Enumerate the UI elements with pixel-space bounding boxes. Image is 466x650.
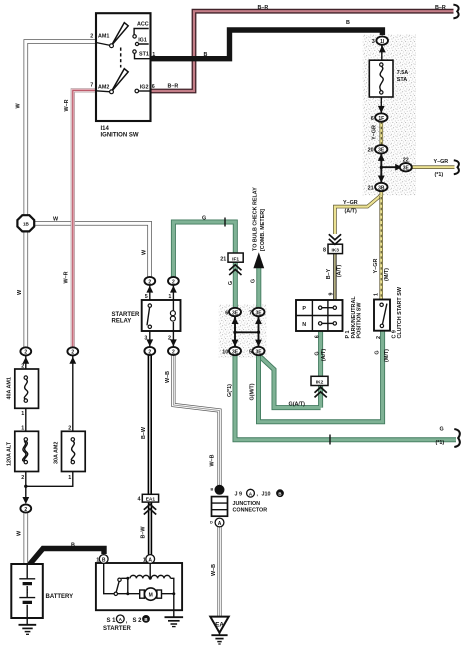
svg-text:120A ALT: 120A ALT — [7, 441, 13, 466]
svg-text:20: 20 — [368, 148, 374, 154]
fuse 7.5A STA box — [369, 60, 393, 97]
ignition lever AM1 — [111, 23, 128, 46]
wire B-R from ignition IG2 up and right to edge hook — [151, 11, 454, 91]
svg-text:EA1: EA1 — [146, 497, 156, 503]
svg-text:3B: 3B — [378, 185, 385, 191]
svg-text:1: 1 — [152, 52, 155, 58]
svg-text:6: 6 — [315, 335, 321, 338]
edge hook G bottom right — [454, 429, 460, 447]
svg-text:W–R: W–R — [64, 271, 70, 283]
wire W-R from ignition AM2 left and down to fuse AM2 — [73, 90, 96, 347]
starter coil 2 — [151, 575, 170, 578]
starter coil 1 — [130, 575, 149, 578]
svg-text:JUNCTION: JUNCTION — [233, 501, 261, 507]
svg-text:B: B — [144, 617, 147, 622]
svg-text:3E: 3E — [403, 166, 410, 172]
relay connector oval 2 pin5 — [144, 277, 155, 285]
svg-text:8: 8 — [323, 248, 326, 254]
connector IF1 box — [228, 253, 243, 262]
svg-text:B: B — [204, 52, 208, 58]
connector EA1 box — [142, 494, 158, 502]
starter terminal B circle — [99, 555, 108, 564]
wire W-B junction connector to body ground EA — [217, 527, 221, 617]
svg-text:1: 1 — [168, 294, 171, 300]
connector 6 oval 3E — [229, 308, 241, 316]
svg-text:G: G — [251, 279, 257, 283]
svg-text:7: 7 — [249, 310, 252, 316]
svg-text:ST1: ST1 — [139, 51, 149, 57]
park/neutral contacts P row — [319, 306, 322, 309]
svg-text:G: G — [315, 351, 321, 355]
svg-text:2: 2 — [172, 279, 175, 285]
wire G connector IF1 to connector 6 3E — [233, 262, 238, 308]
svg-text:2: 2 — [21, 475, 24, 481]
svg-text:10: 10 — [222, 349, 228, 355]
park/neutral contacts N row — [319, 322, 322, 325]
svg-text:2: 2 — [24, 350, 27, 356]
ignition lever link dashed — [120, 48, 122, 68]
svg-text:30A AM2: 30A AM2 — [54, 442, 60, 464]
svg-text:7: 7 — [90, 82, 93, 88]
svg-text:P: P — [302, 306, 306, 312]
svg-text:1: 1 — [374, 293, 380, 296]
wire G park/neutral pin 6 to connector IK2 down left to connector 5 3E — [260, 331, 321, 408]
svg-text:6: 6 — [225, 310, 228, 316]
connector 10 oval 3E — [229, 347, 241, 355]
svg-text:STARTER: STARTER — [103, 626, 132, 632]
wire W octagon down to fuse AM1 — [23, 232, 28, 348]
fuse 30A AM2 box — [62, 431, 86, 471]
fuse 40A AM1 box — [15, 369, 39, 408]
svg-text:RELAY: RELAY — [112, 318, 132, 324]
starter junction dots — [126, 577, 129, 580]
svg-text:2: 2 — [168, 335, 171, 341]
connector 20 oval 3E — [375, 145, 387, 153]
svg-text:IGNITION SW: IGNITION SW — [101, 132, 139, 138]
svg-text:EA: EA — [215, 622, 224, 629]
svg-text:(A/T): (A/T) — [321, 349, 327, 361]
ignition contact IG1b — [135, 42, 138, 45]
arrow into connector 22 — [395, 164, 402, 171]
ignition ACC ladder line — [134, 29, 149, 59]
svg-text:ACC: ACC — [137, 21, 149, 27]
arrow into connector 20 — [378, 154, 385, 161]
svg-text:AM1: AM1 — [98, 33, 109, 39]
arrow to bulb check relay — [253, 252, 264, 268]
wire Y-GR connector 22 to right edge hook — [412, 165, 455, 169]
relay connector oval 2 pin3 — [144, 347, 155, 355]
connector IK3 box — [328, 244, 343, 253]
arrows into connectors 6,7 3E — [232, 317, 239, 324]
svg-text:6: 6 — [371, 116, 374, 122]
svg-text:3E: 3E — [232, 349, 239, 355]
svg-text:2: 2 — [376, 336, 382, 339]
svg-text:N: N — [302, 322, 306, 328]
svg-text:W–B: W–B — [211, 564, 217, 576]
svg-text:B–R: B–R — [258, 5, 269, 11]
connector 21 oval 3B — [375, 183, 387, 191]
svg-text:Y–GR: Y–GR — [343, 200, 358, 206]
fuse 120A ALT box — [15, 431, 39, 471]
svg-text:B: B — [218, 488, 222, 494]
svg-text:(*1): (*1) — [435, 172, 444, 178]
svg-text:Y–GR: Y–GR — [372, 125, 378, 140]
svg-text:IK3: IK3 — [331, 248, 339, 254]
wire Y-GR (M/T) down to clutch start switch — [379, 196, 383, 300]
svg-text:B: B — [278, 492, 281, 497]
svg-text:2: 2 — [148, 349, 151, 355]
wire B-Y connector IK3 to park/neutral switch pin 9 — [333, 254, 336, 300]
wire W octagon to starter relay column — [34, 223, 149, 277]
wire Y-GR (A/T) branch to connector IK3 — [335, 195, 381, 234]
starter box — [96, 563, 182, 610]
junction dot fuse output — [24, 485, 27, 488]
fuse 7.5A STA element — [380, 66, 383, 91]
arrow into connector 6 — [378, 106, 385, 113]
svg-text:3: 3 — [372, 39, 375, 45]
svg-text:TO BULB CHECK RELAY: TO BULB CHECK RELAY — [252, 187, 258, 251]
starter relay box — [142, 300, 181, 331]
wire W from ignition AM1 left and down to octagon 1B — [26, 42, 96, 216]
connector oval 2 above fuse AM1 — [20, 347, 31, 355]
battery box — [11, 564, 43, 618]
svg-text:A: A — [148, 557, 152, 563]
svg-text:G: G — [228, 281, 234, 285]
junction block stipple middle — [219, 305, 267, 359]
ignition lever AM2 — [111, 69, 128, 92]
chevrons IK3 — [329, 234, 341, 244]
ignition contact IG2 — [135, 89, 139, 93]
wire black fuse to connector 6 1F — [380, 97, 382, 114]
svg-text:3E: 3E — [232, 310, 239, 316]
svg-text:3E: 3E — [255, 310, 262, 316]
wire B thick battery cable to starter terminal B — [30, 549, 105, 565]
wire black fuse AM1 chain down — [25, 356, 27, 498]
wire G connector 10 3E down and right to edge hook — [235, 355, 456, 440]
wire black fuse AM2 chain down and left to junction — [26, 356, 73, 487]
svg-text:D: D — [210, 520, 213, 524]
svg-text:BATTERY: BATTERY — [46, 594, 74, 600]
svg-text:CONNECTOR: CONNECTOR — [233, 507, 268, 513]
starter ground — [165, 616, 184, 618]
tick mark on G wire bottom — [329, 435, 331, 445]
svg-text:B: B — [211, 487, 214, 491]
svg-text:3: 3 — [144, 335, 147, 341]
svg-text:(A/T): (A/T) — [337, 265, 343, 277]
connector 22 oval 3E — [400, 163, 412, 171]
svg-text:2: 2 — [24, 507, 27, 513]
wire black fuse STA connector 3 to fuse — [381, 45, 383, 60]
svg-text:S 1: S 1 — [107, 618, 117, 624]
connector oval 2 above fuse AM2 — [67, 347, 78, 355]
wire black junction to connector 22 3E — [381, 166, 399, 168]
svg-text:IK2: IK2 — [316, 380, 324, 386]
starter terminal A circle — [146, 555, 155, 564]
ignition contact ST1 — [133, 50, 136, 53]
svg-text:W–B: W–B — [165, 371, 171, 383]
starter relay coil — [172, 300, 174, 311]
junction connector box — [212, 497, 228, 517]
svg-text:22: 22 — [403, 158, 409, 164]
svg-text:1F: 1F — [378, 116, 384, 122]
svg-text:(*1): (*1) — [436, 440, 445, 446]
wire G relay pin 1 up right down to connector IF1 — [173, 222, 235, 277]
wire Y-GR connector 21 down with A/T branch — [379, 191, 383, 196]
ignition contact IG1 — [133, 35, 136, 38]
svg-text:B: B — [346, 20, 350, 26]
svg-text:40A AM1: 40A AM1 — [7, 377, 13, 399]
wire W connector 2 down to battery — [23, 513, 28, 564]
internal junction bus black connectors 6,7 to 10,5 — [235, 317, 259, 348]
svg-text:G(A/T): G(A/T) — [289, 401, 306, 407]
svg-text:(M/T): (M/T) — [384, 349, 390, 362]
svg-text:J 9: J 9 — [235, 491, 243, 497]
svg-text:5: 5 — [145, 294, 148, 300]
svg-text:3E: 3E — [255, 349, 262, 355]
svg-text:IG2: IG2 — [140, 85, 149, 91]
svg-text:(M/T): (M/T) — [384, 268, 390, 281]
svg-text:G: G — [375, 350, 381, 354]
svg-text:5: 5 — [249, 349, 252, 355]
svg-text:B: B — [102, 557, 106, 563]
chevrons EA1 — [144, 504, 156, 514]
svg-text:1: 1 — [21, 411, 24, 417]
arrows into fuse connector ovals left column — [22, 357, 29, 364]
starter motor M — [140, 590, 145, 598]
svg-text:1: 1 — [21, 425, 24, 431]
svg-text:G(*1): G(*1) — [227, 384, 233, 397]
svg-text:7.5A: 7.5A — [397, 70, 408, 76]
junction connector J9 J10 circle B — [215, 485, 224, 494]
svg-text:B–W: B–W — [141, 426, 147, 439]
svg-text:1: 1 — [68, 475, 71, 481]
relay connector oval 2 pin1 — [168, 277, 179, 285]
svg-text:2: 2 — [71, 350, 74, 356]
wire G clutch switch pin 2 down left to connector 5 3E — [259, 331, 383, 422]
svg-text:A: A — [218, 521, 222, 527]
svg-text:STARTER: STARTER — [112, 312, 141, 318]
svg-text:S 2: S 2 — [133, 618, 143, 624]
wire G to bulb check relay arrow down to connector 7 3E — [256, 266, 261, 308]
edge hook B-R top right — [453, 5, 458, 19]
chevrons IF1 — [229, 265, 241, 275]
chevrons IK2 — [315, 387, 327, 397]
starter internal wiring — [104, 563, 174, 617]
arrows into relay connector ovals — [146, 286, 153, 293]
svg-text:4: 4 — [138, 497, 141, 503]
starter relay switch — [148, 304, 151, 307]
svg-text:B–R: B–R — [168, 83, 179, 89]
svg-text:1I: 1I — [380, 39, 385, 45]
svg-text:21: 21 — [220, 256, 226, 262]
junction dot bus left — [233, 331, 236, 334]
battery ground — [26, 618, 28, 625]
octagon connector 1B — [17, 215, 34, 231]
svg-text:1: 1 — [96, 557, 99, 563]
svg-text:B–W: B–W — [141, 526, 147, 539]
svg-text:W–R: W–R — [64, 99, 70, 111]
edge hook Y-GR right — [454, 160, 459, 174]
svg-text:1: 1 — [143, 557, 146, 563]
svg-text:G(M/T): G(M/T) — [249, 383, 255, 400]
ignition switch I14 box — [96, 13, 151, 121]
body ground EA triangle — [210, 617, 228, 633]
connector 5 oval 3E — [253, 347, 265, 355]
svg-text:Y–GR: Y–GR — [373, 259, 379, 274]
svg-text:9: 9 — [329, 293, 335, 296]
svg-text:CLUTCH START SW: CLUTCH START SW — [397, 286, 403, 338]
arrows into connectors 10,5 3E — [232, 340, 239, 347]
wire Y-GR connector 6 1F to connector 20 3E — [379, 122, 383, 146]
svg-text:1B: 1B — [23, 222, 30, 227]
starter magnetic switch — [118, 578, 121, 581]
svg-text:POSITION SW: POSITION SW — [356, 302, 362, 339]
svg-text:B: B — [71, 542, 75, 548]
arrow into connector 21 — [378, 176, 385, 183]
clutch start switch C9 box — [374, 300, 390, 331]
wire B-W relay pin 3 down to connector EA1 — [148, 355, 152, 494]
svg-text:IG1: IG1 — [138, 37, 147, 43]
wire black connector 20 to junction to connector 21 3B — [380, 153, 382, 182]
svg-text:2: 2 — [148, 279, 151, 285]
svg-text:[COMB. METER]: [COMB. METER] — [260, 209, 266, 251]
svg-text:21: 21 — [368, 185, 374, 191]
svg-text:2: 2 — [90, 33, 93, 39]
svg-text:2: 2 — [68, 425, 71, 431]
svg-text:M: M — [149, 592, 153, 598]
wire black relay pins to connector ovals — [150, 285, 174, 347]
svg-text:B–Y: B–Y — [326, 268, 332, 279]
svg-text:I14: I14 — [101, 126, 110, 132]
connector 7 oval 3E — [253, 308, 265, 316]
wire B-W connector EA1 to starter terminal A — [148, 502, 152, 555]
junction block stipple top-right — [363, 35, 417, 196]
arrow into connector 3 — [379, 45, 386, 52]
relay connector oval 2 pin2 — [168, 347, 179, 355]
svg-text:G: G — [440, 426, 444, 432]
connector 3 oval 1I — [376, 36, 388, 44]
ignition AM2 lead — [96, 91, 111, 92]
svg-text:J10: J10 — [262, 491, 271, 497]
svg-text:IF1: IF1 — [232, 256, 239, 262]
wire B thick from ignition ST1 to fuse STA — [151, 30, 383, 59]
junction connector circle A — [215, 518, 224, 527]
svg-text:Y–GR: Y–GR — [434, 159, 449, 165]
svg-text:(A/T): (A/T) — [345, 208, 357, 214]
svg-text:W–B: W–B — [209, 454, 215, 466]
svg-text:6: 6 — [152, 84, 155, 90]
svg-text:AM2: AM2 — [98, 84, 109, 90]
svg-text:2: 2 — [21, 363, 24, 369]
tick mark on G wire — [224, 218, 226, 227]
junction dot node Y-GR — [380, 166, 383, 169]
svg-text:2: 2 — [172, 349, 175, 355]
svg-text:STA: STA — [397, 77, 407, 83]
ignition AM1 lead — [96, 43, 111, 46]
svg-text:B–R: B–R — [435, 5, 446, 11]
svg-text:G: G — [202, 215, 206, 221]
wire W-B relay pin 2 down right to junction connector — [173, 355, 219, 486]
connector 6 oval 1F — [375, 113, 387, 121]
junction dot bus right — [257, 331, 260, 334]
connector oval 2 below fuses — [20, 504, 31, 512]
park/neutral position switch P1 box — [296, 300, 343, 331]
svg-text:3E: 3E — [378, 148, 385, 154]
connector IK2 box — [311, 376, 328, 385]
battery cells — [19, 564, 35, 618]
